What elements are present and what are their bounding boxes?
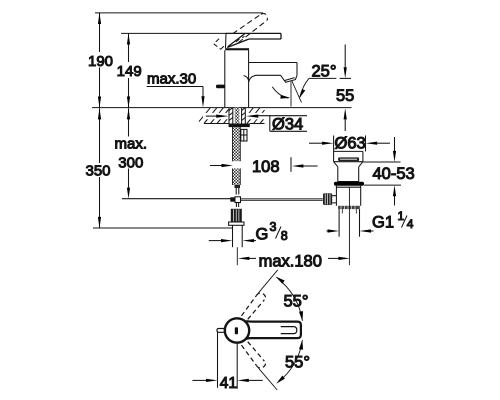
max.30 leader drop [202,87,204,98]
white band for dim line across hatch [203,113,229,119]
countertop hatch left [199,108,229,124]
svg-text:8: 8 [281,229,288,243]
svg-text:max.: max. [115,135,148,152]
drain lock nut band [338,206,360,209]
lift rod upper [235,188,237,195]
cartridge base dark bar [225,48,249,50]
svg-text:Ø34: Ø34 [272,116,303,134]
lever top [226,32,282,34]
G3/8 nut dark [231,209,242,222]
svg-text:190: 190 [88,53,113,70]
dim max.180 [238,257,250,260]
dim 55 upper [344,45,346,69]
dim 55 lower [344,108,347,119]
dashed lever butt [214,37,245,50]
countertop bottom line right [250,123,265,125]
svg-text:G: G [256,226,269,244]
dimension 350 vertical line [99,108,101,163]
countertop hatch right [247,108,265,124]
bottom view circle [225,318,249,342]
svg-text:4: 4 [407,217,414,231]
drain lower body [336,186,360,206]
lever bottom [249,38,281,40]
svg-text:G1: G1 [372,213,394,231]
dimension 149 vertical line [128,33,130,62]
pop-up knob on body [216,85,225,89]
dim G1 1/4 [327,230,329,232]
dimension max.300 vertical line [128,108,130,136]
countertop bottom line left [204,123,229,125]
spout fillet [249,75,256,82]
clamp screw left dark [230,197,235,201]
svg-text:max.180: max.180 [259,252,322,270]
drain tailpipe [338,209,340,237]
dim 108 right ext line [290,157,292,172]
lever front cut diagonal [228,34,245,47]
axis line down [259,368,278,390]
washer band [229,222,244,225]
drain taper [334,162,338,167]
svg-text:Ø63: Ø63 [335,135,366,153]
drain middle cylinder [337,167,339,182]
drain o-ring dark [334,182,364,186]
pop-up drain rod horizontal [241,198,323,200]
dim 108 left arrow [210,165,223,167]
pop-up rod bracket [241,129,247,141]
extension line lever top (149 ref) [121,32,226,34]
lever underside diagonal [227,39,249,48]
faucet body right edge upper [248,50,250,107]
svg-text:25°: 25° [312,62,337,80]
faucet shank through counter [229,108,245,124]
cross block [235,197,241,203]
arc upper 55 [282,282,303,321]
faucet body left edge [224,50,226,107]
dim G3/8 arrows [209,240,222,242]
drain centerline [348,187,350,265]
supply hose upper (threaded) [233,127,241,161]
dim Ø34 left arrow [206,115,217,117]
drain plug dark [338,157,359,161]
drain top cylinder [334,151,363,161]
hose end fitting [235,185,241,188]
water stream 25 deg line [292,81,302,103]
mounting flange under counter [229,124,250,128]
dim 40-53 [363,161,401,163]
spout bottom [256,74,281,76]
svg-text:3: 3 [270,220,277,234]
dashed lever up 55 [242,293,266,319]
dim 108 right arrow [292,164,304,167]
extension line 350 bottom [93,227,233,229]
aerator [281,75,297,82]
cartridge left edge [225,33,228,48]
svg-text:149: 149 [117,63,142,80]
lever slot detail [281,327,297,334]
angle arc left [272,87,288,98]
extension line max300 bottom [122,198,231,200]
svg-text:40-53: 40-53 [373,165,415,183]
spout top [249,62,297,64]
dim 41 [217,333,219,388]
extension line top (190 ref) [95,12,263,14]
dim Ø63 [333,136,335,152]
circle inner mark [235,327,238,334]
lever right edge [280,33,282,39]
svg-text:41: 41 [220,375,237,392]
svg-text:55: 55 [336,87,354,105]
left stub (spout) [217,329,226,333]
drain lever knob [323,193,332,205]
svg-text:max.30: max.30 [147,71,196,88]
svg-text:350: 350 [85,162,110,179]
25 underline [309,77,336,79]
dimension 190 vertical line [99,13,101,52]
lever solid [246,321,301,339]
label box Ø34 [269,116,271,132]
dashed lever down 55 [242,342,266,368]
water stream vertical line [290,82,292,107]
countertop top line [92,107,352,109]
arc lower 55 [282,340,303,379]
dimension 190 arrows [98,13,101,24]
svg-text:300: 300 [118,154,143,171]
svg-text:55°: 55° [284,293,309,311]
knob neck [332,196,336,203]
axis line up [259,270,278,293]
dim Ø34 right arrow [246,115,258,118]
svg-text:55°: 55° [285,354,310,372]
lift rod lower stem [235,203,237,208]
svg-text:1: 1 [398,209,405,223]
spout right edge [296,63,298,76]
dimension 149 arrows [127,33,130,44]
supply tube [232,225,234,247]
dashed lever raised [233,14,268,43]
faucet centerline below tube [236,247,238,265]
svg-text:108: 108 [252,158,280,176]
spout inner fillet [244,76,249,81]
supply hose lower (threaded) [233,168,241,185]
angle arc right from 25 label [300,78,309,97]
max.30 leader underline [147,86,203,88]
